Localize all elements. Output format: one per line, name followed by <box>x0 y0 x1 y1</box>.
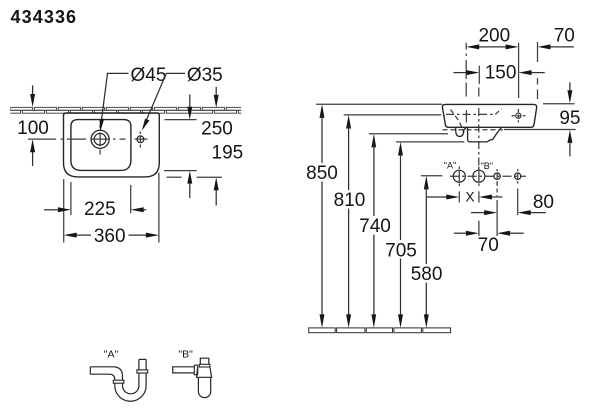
svg-text:"A": "A" <box>104 348 119 360</box>
hidden bowl slope right <box>495 109 501 115</box>
svg-text:195: 195 <box>212 142 244 163</box>
dim 200 line with arrows <box>466 44 518 49</box>
hidden bowl line horizontal (front view) <box>446 113 495 115</box>
extension vertical 200 left (inside basin) <box>465 110 467 122</box>
centerline drain vertical upper segment <box>478 88 480 97</box>
dim X tick B <box>478 191 480 202</box>
mounting holes centerline horizontal <box>450 175 526 177</box>
dim X tick A <box>458 191 460 202</box>
siphon B horizontal pipe <box>173 367 195 373</box>
dim 225 right arrow <box>131 207 147 212</box>
bowl inner outline <box>71 120 131 171</box>
dim 70 extension right vertical (dash-dot) <box>537 42 539 99</box>
dim 195 bottom arrow <box>187 171 192 198</box>
extension line basin front edge (y 177.2) right part <box>197 176 222 178</box>
wall line 850 level <box>316 103 442 105</box>
centerline through holes (plan) <box>28 138 147 140</box>
tap hole vertical centerline <box>99 125 101 155</box>
svg-text:810: 810 <box>334 190 366 211</box>
small hole 2 circle <box>515 173 521 179</box>
tap hole O45 inner circle <box>94 133 106 145</box>
extension vertical bowl left edge <box>70 182 72 215</box>
svg-text:80: 80 <box>533 192 554 213</box>
dim 100 bottom arrow <box>30 139 35 166</box>
svg-text:740: 740 <box>359 216 391 237</box>
siphon B cup <box>198 377 210 397</box>
dim 250 bottom arrow <box>214 177 219 205</box>
svg-text:"B": "B" <box>481 161 493 171</box>
small hole 1 vertical tick <box>496 169 498 184</box>
line 810 level <box>344 114 442 116</box>
dim 100 top arrow <box>30 85 35 107</box>
dim 95 top arrow <box>567 82 572 103</box>
tap hole O45 outer circle <box>91 130 109 148</box>
dim 70 top arrow <box>538 44 574 49</box>
siphon B inlet pipe <box>200 358 209 364</box>
dim 70 right arrow <box>497 231 524 236</box>
dim 705 vertical <box>398 142 403 328</box>
svg-text:150: 150 <box>485 63 517 84</box>
dim 80 left arrow <box>471 210 497 215</box>
hole B circle <box>473 170 485 182</box>
hidden line through drain (dashed) <box>443 129 504 131</box>
svg-text:70: 70 <box>478 235 499 256</box>
extension line basin front edge (y 177.2) left part <box>167 176 182 178</box>
dim 150 left arrow <box>454 70 480 75</box>
hole A circle <box>453 170 465 182</box>
dim 225 left arrow <box>44 207 71 212</box>
svg-text:95: 95 <box>559 108 580 129</box>
drain overflow piece (front view) <box>456 127 466 136</box>
extension vertical basin right edge <box>158 173 160 243</box>
line 580 level <box>421 175 443 177</box>
wall hatch (plan view, two brick rows) <box>0 107 261 113</box>
O35 front crosshair ticks <box>512 109 526 123</box>
siphon B flange <box>194 365 197 375</box>
extension small hole2 down <box>517 189 519 216</box>
dim 810 vertical <box>346 115 351 328</box>
svg-text:360: 360 <box>94 226 126 247</box>
line 705 level <box>396 141 464 143</box>
siphon A nut left <box>113 380 124 383</box>
line 740 level <box>369 133 448 135</box>
svg-text:225: 225 <box>84 199 116 220</box>
svg-text:70: 70 <box>554 25 575 46</box>
small hole 1 circle <box>494 173 500 179</box>
siphon B inlet nut <box>199 364 210 367</box>
siphon B body upper <box>197 367 212 377</box>
extension vertical bowl right edge <box>130 185 132 213</box>
svg-text:705: 705 <box>385 240 417 261</box>
basin front view outline <box>442 104 536 127</box>
hidden bowl slope left <box>451 110 465 133</box>
wall line right of basin <box>543 103 575 105</box>
dim 740 vertical <box>371 134 376 328</box>
dim 195 top arrow <box>187 94 192 119</box>
dim 200 extension left vertical (dash-dot) <box>465 43 467 97</box>
dim 150 tick vertical <box>478 66 480 84</box>
dim 580 vertical <box>424 176 429 328</box>
hole A vertical tick <box>458 167 460 187</box>
siphon A nut right <box>137 370 148 373</box>
extension small hole1 down (dash then solid) <box>496 182 498 196</box>
dim X left arrow <box>427 195 459 200</box>
small hole 2 vertical tick <box>517 169 519 184</box>
extension line bowl top edge (y 119.6) <box>165 119 197 121</box>
svg-text:"A": "A" <box>444 160 456 170</box>
centerline drain vertical (dash-dot) <box>478 108 480 170</box>
svg-text:"B": "B" <box>178 348 193 360</box>
svg-text:Ø45: Ø45 <box>131 65 167 86</box>
leader O35 <box>142 73 185 130</box>
dim X right arrow <box>479 195 503 200</box>
extension vertical basin left edge <box>63 179 65 243</box>
dim 70 left arrow <box>454 231 479 236</box>
dim 850 vertical <box>320 104 325 328</box>
svg-text:250: 250 <box>201 119 233 140</box>
svg-text:200: 200 <box>478 26 510 47</box>
dim 250 top arrow <box>214 87 219 108</box>
floor brick row <box>309 328 451 333</box>
dim 360 line with outward arrows <box>64 233 159 238</box>
svg-text:850: 850 <box>306 163 338 184</box>
dim 80 right arrow <box>518 210 546 215</box>
dim 150 right arrow <box>519 70 545 75</box>
svg-text:X: X <box>465 190 474 205</box>
O35 front crosshair circle <box>516 113 521 118</box>
svg-text:100: 100 <box>17 118 49 139</box>
extension line bowl front edge (y 170.6) <box>164 170 197 172</box>
svg-text:434336: 434336 <box>11 7 78 27</box>
dim 70 tick B <box>478 221 480 236</box>
hole B vertical tick <box>478 167 480 187</box>
basin plan outline <box>64 113 160 177</box>
dim 200/150 extension O35 vertical <box>518 43 520 98</box>
siphon A p-trap outline <box>90 359 146 401</box>
svg-text:580: 580 <box>411 264 443 285</box>
hole O35 circle <box>137 136 144 143</box>
svg-text:Ø35: Ø35 <box>187 65 223 86</box>
dim 95 bottom arrow <box>567 130 572 157</box>
leader O45 <box>99 73 128 131</box>
drain outlet shape (front view) <box>468 127 502 142</box>
hole O35 vertical tick <box>139 132 141 148</box>
extension line right of basin bottom <box>504 129 576 131</box>
